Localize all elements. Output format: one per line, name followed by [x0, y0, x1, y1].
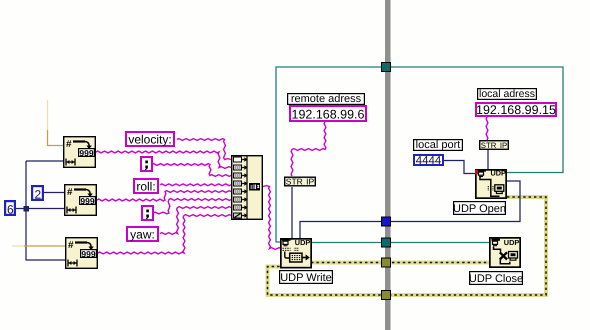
svg-text:UDP Write: UDP Write — [280, 272, 332, 284]
svg-text:UDP: UDP — [295, 238, 311, 247]
svg-text:local port: local port — [416, 139, 461, 151]
svg-text:UDP: UDP — [504, 238, 520, 247]
svg-text:IP: IP — [500, 141, 507, 150]
svg-text:UDP Close: UDP Close — [469, 273, 523, 285]
svg-text:#: # — [68, 240, 74, 251]
svg-text:#: # — [66, 139, 72, 150]
svg-text:STR: STR — [286, 176, 303, 186]
svg-text:2: 2 — [34, 188, 41, 202]
svg-text:remote adress: remote adress — [291, 93, 362, 105]
svg-text:192.168.99.15: 192.168.99.15 — [476, 103, 556, 117]
svg-text:yaw:: yaw: — [130, 227, 155, 241]
svg-text:999: 999 — [79, 148, 93, 158]
svg-text:UDP Open: UDP Open — [453, 203, 506, 215]
svg-text:STR: STR — [481, 141, 497, 150]
svg-text:#: # — [67, 187, 73, 198]
svg-text:6: 6 — [7, 203, 14, 217]
svg-text:roll:: roll: — [136, 179, 155, 193]
svg-text:velocity:: velocity: — [128, 132, 171, 146]
svg-text:999: 999 — [81, 249, 95, 259]
svg-text:192.168.99.6: 192.168.99.6 — [292, 108, 365, 122]
svg-text:IP: IP — [306, 176, 314, 186]
svg-text:local adress: local adress — [479, 88, 535, 100]
svg-text:UDP: UDP — [491, 169, 507, 178]
svg-text:999: 999 — [80, 196, 94, 206]
svg-text:4444: 4444 — [416, 155, 442, 167]
